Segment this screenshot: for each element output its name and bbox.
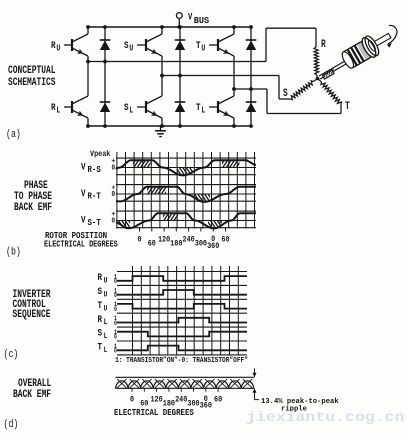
svg-text:0: 0 — [137, 236, 141, 245]
svg-text:180: 180 — [170, 240, 183, 249]
svg-text:V: V — [81, 213, 86, 226]
svg-text:T: T — [345, 100, 350, 113]
svg-text:300: 300 — [195, 240, 208, 249]
svg-text:(b): (b) — [6, 245, 21, 257]
svg-text:(d): (d) — [4, 418, 19, 430]
svg-text:L: L — [104, 332, 108, 341]
svg-text:U: U — [104, 305, 108, 314]
svg-text:0: 0 — [130, 396, 134, 405]
svg-text:U: U — [104, 291, 108, 300]
svg-text:S: S — [124, 39, 129, 52]
svg-text:U: U — [201, 44, 205, 54]
svg-text:S: S — [98, 327, 103, 340]
svg-text:U: U — [129, 44, 133, 54]
svg-text:BUS: BUS — [194, 15, 210, 27]
svg-text:R: R — [51, 39, 56, 52]
svg-text:R-T: R-T — [88, 191, 101, 202]
svg-text:R-S: R-S — [88, 164, 101, 175]
svg-text:T: T — [196, 101, 201, 114]
svg-text:60: 60 — [148, 240, 156, 249]
svg-text:L: L — [56, 106, 60, 116]
svg-text:240: 240 — [182, 236, 195, 245]
svg-text:L: L — [129, 106, 133, 116]
svg-text:R: R — [98, 313, 103, 326]
svg-text:0: 0 — [114, 347, 117, 355]
svg-text:S: S — [283, 87, 288, 100]
svg-text:0: 0 — [112, 164, 116, 173]
svg-text:R: R — [51, 101, 56, 114]
svg-text:0: 0 — [114, 333, 117, 341]
svg-text:0: 0 — [114, 291, 117, 299]
svg-text:jiexiantu.cog.cn: jiexiantu.cog.cn — [246, 409, 404, 425]
svg-text:BACK EMF: BACK EMF — [14, 201, 52, 214]
svg-text:360: 360 — [207, 242, 220, 251]
svg-text:T: T — [98, 340, 103, 353]
svg-text:SEQUENCE: SEQUENCE — [13, 308, 51, 321]
svg-text:0: 0 — [112, 217, 116, 226]
svg-text:(c): (c) — [4, 348, 19, 360]
svg-text:V: V — [81, 187, 86, 200]
svg-text:1: TRANSISTOR”ON”-0: TRANSISTO: 1: TRANSISTOR”ON”-0: TRANSISTOR”OFF” — [115, 357, 248, 364]
svg-text:S: S — [98, 285, 103, 298]
svg-text:L: L — [104, 318, 108, 327]
svg-text:BACK EMF: BACK EMF — [13, 388, 51, 401]
svg-text:U: U — [56, 44, 60, 54]
svg-text:R: R — [321, 38, 326, 51]
svg-text:T: T — [98, 299, 103, 312]
svg-text:0: 0 — [114, 305, 117, 313]
svg-text:360: 360 — [200, 402, 213, 411]
svg-text:0: 0 — [112, 190, 116, 199]
svg-text:R: R — [98, 271, 103, 284]
svg-text:60: 60 — [221, 236, 229, 245]
svg-text:120: 120 — [158, 236, 171, 245]
svg-text:ELECTRICAL DEGREES: ELECTRICAL DEGREES — [44, 240, 118, 250]
svg-text:0: 0 — [114, 277, 117, 285]
svg-text:60: 60 — [214, 396, 222, 405]
svg-text:S-T: S-T — [88, 217, 101, 228]
svg-text:U: U — [104, 277, 108, 286]
svg-text:V: V — [188, 11, 193, 22]
svg-text:T: T — [196, 39, 201, 52]
svg-text:CONCEPTUAL: CONCEPTUAL — [8, 64, 56, 77]
svg-text:Vpeak: Vpeak — [90, 150, 111, 159]
svg-text:120: 120 — [150, 396, 163, 405]
svg-text:SCHEMATICS: SCHEMATICS — [8, 76, 56, 89]
svg-text:ELECTRICAL DEGREES: ELECTRICAL DEGREES — [114, 407, 194, 418]
svg-text:V: V — [81, 160, 86, 173]
svg-text:240: 240 — [175, 396, 188, 405]
svg-text:0: 0 — [114, 319, 117, 327]
svg-text:L: L — [201, 106, 205, 116]
svg-text:(a): (a) — [6, 128, 21, 140]
svg-text:L: L — [104, 346, 108, 355]
svg-text:S: S — [124, 101, 129, 114]
